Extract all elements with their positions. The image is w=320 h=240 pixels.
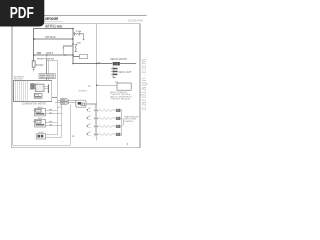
node cluster lower block inner [35,94,39,96]
resistor R4 grid row 4 [86,131,121,136]
node cluster lower block [34,94,42,99]
wire: feed line from frame top down to grid [96,24,98,141]
node S1 slits [115,62,117,65]
resistor R3 grid row 3 [86,123,121,128]
node K1 inner coil [82,103,85,106]
node grommet hop 2 [88,85,90,86]
node junction dot [33,54,35,56]
wire: page header top rule [44,15,146,17]
node junction dot [46,54,48,56]
svg-text:CONTROL MODULE): CONTROL MODULE) [110,99,130,101]
battery fusible link FL1 [32,61,35,67]
node C2 side label [68,99,69,104]
connector C2 twin box upper [60,99,67,102]
connector row2 [116,117,120,120]
node C2 lower label bar [61,102,65,103]
wire: bus feed at y53.8 [34,54,73,56]
node stack bar 1 [113,68,118,70]
svg-text:G203: G203 [58,107,62,109]
wire: K3 pin1 [45,121,57,123]
node tick near frame bottom right [127,143,128,144]
svg-text:DEFOGGER: DEFOGGER [45,17,58,21]
svg-text:2: 2 [94,137,95,139]
wire: header divider rule [44,20,63,22]
svg-text:DEFOG SWITCH: DEFOG SWITCH [111,58,128,61]
node K3 inner contact [36,120,42,123]
instrument cluster box U2 [14,80,52,101]
wire: feed to module y85.3 [97,84,117,86]
switch S1 connector block [113,62,120,65]
wire: riser x57.5 lower [56,100,58,135]
node junction dot [33,38,35,40]
module U1 auto defog control [117,83,131,90]
node junction dot [72,54,74,56]
node junction dot [96,85,98,87]
wire: power bus box top and sides [34,29,73,64]
node K3 pin labels [49,121,52,122]
svg-text:15A: 15A [76,30,82,33]
node grommet hop 1 [98,62,100,63]
svg-text:BATTERY: BATTERY [36,64,44,67]
node cluster meter block [35,84,44,91]
wire: stack stubs [111,69,113,75]
node outer schematic frame [11,24,140,148]
wire: drop corner riser to relay wires [47,55,57,100]
node junction dot [96,63,98,65]
node K2 inner bar [36,113,45,115]
wire: row3 cross [94,125,99,127]
node stray connector mark [73,135,74,137]
defogger relay K1 rounded box [76,100,86,107]
svg-text:COMBINATION METER: COMBINATION METER [22,102,46,105]
relay K2 box [35,108,46,116]
connector row3 [116,125,120,128]
diode D1 box [36,134,45,139]
svg-text:HOT AT ALL TIMES: HOT AT ALL TIMES [45,25,62,29]
node label wire size blob [37,51,41,54]
node arrow off page [135,63,137,65]
resistor element row3 [99,125,117,127]
resistor R1 grid row 1 [86,107,121,112]
svg-text:PDF: PDF [10,5,34,22]
wire: L link from fuse bus [63,46,73,55]
svg-text:cardiagn.com: cardiagn.com [141,58,148,110]
svg-text:DEFOGGER SW: DEFOGGER SW [40,77,54,79]
wire: K2 pin2 [45,113,61,115]
node cluster lower block bar [35,96,41,97]
wire: cluster outputs right [44,86,48,89]
relay K3 box [35,119,46,127]
resistor element row2 [99,117,117,119]
node junction dot bus corner [72,28,74,30]
node connector tick [32,69,34,71]
connector row4 [116,133,120,136]
svg-text:RR DEF RLY: RR DEF RLY [79,90,88,92]
node C2 upper label bar [61,99,65,100]
node arrow row3 [87,123,90,125]
node K1 inner contact [78,102,82,105]
node label box rear window defogger switch [39,74,55,79]
node D1 inner square 2 [41,135,44,138]
svg-text:RR DEFOGGER 40A: RR DEFOGGER 40A [37,57,54,60]
node connector tick pair [64,54,66,56]
node PDF badge [0,0,44,27]
wire: K3 left stub [33,120,35,122]
connector C1 box [80,54,88,58]
fuse F1 [73,32,85,40]
svg-text:30A: 30A [77,42,82,45]
wire: K2 pin1 [45,109,57,111]
svg-text:DEFOG LIGHT: DEFOG LIGHT [119,72,132,74]
resistor R2 grid row 2 [86,115,121,120]
wire: cluster inner verticals [16,80,28,101]
svg-text:(GRID): (GRID) [124,121,133,123]
wire: D1 pin2 [46,136,62,138]
node K3 inner bar [36,124,45,126]
connector row1 [116,109,120,112]
wire: run to relay y102.8 [55,102,76,104]
wire: row4 cross [94,133,99,135]
wire: row2 cross [94,117,99,119]
wire: relay to grid bus [86,104,97,136]
wire: riser x61.5 [61,104,63,137]
node ticks on branch vertical [62,48,64,49]
wire: defog switch feed y63.5 [73,63,112,65]
node inner left junction box frame [13,27,71,146]
wire: switch output [120,63,135,65]
wire: run to relay y100.3 [58,99,76,101]
node stack bar 3 [113,74,118,76]
node arrow row2 [87,115,90,117]
node K2 inner contact [36,109,42,112]
wire: cluster thick internal lead [47,84,50,93]
wire: bus feed at y39 [34,38,73,40]
resistor element row1 [99,109,117,111]
wire: battery lower lead [33,67,35,71]
wire: grid collector [120,109,122,136]
wire: K2 left stub [33,110,35,112]
wire: cluster diagonal [30,83,38,90]
wire: lead to connector C1 [73,56,80,58]
node bracket for grid caption [122,119,123,126]
wire: cluster out y97.5 [52,97,57,99]
node D1 inner square 1 [37,135,40,138]
defog unit connector stack [111,66,118,78]
node junction dot [72,38,74,40]
svg-text:2005 SYSTEM DIAGRAMS: 2005 SYSTEM DIAGRAMS [128,18,144,22]
wire: stack spine [112,66,114,77]
node K2 pin labels [49,109,52,110]
wire: D1 pin1 [46,134,58,136]
node junction dot [72,43,74,45]
wire: vertical feeds into cluster [47,60,49,80]
node stack bar 2 [113,71,118,73]
node arrow row4 [87,131,90,133]
node arrow row1 [87,107,90,109]
node stack foot [113,77,116,78]
node junction dot [72,63,74,65]
node cluster lamp block [31,84,35,89]
wire: row1 cross [94,109,99,111]
resistor element row4 [99,133,117,135]
connector C2 twin box lower [60,102,67,105]
fuse F2 [75,44,78,51]
wire: K3 pin2 [45,125,61,127]
